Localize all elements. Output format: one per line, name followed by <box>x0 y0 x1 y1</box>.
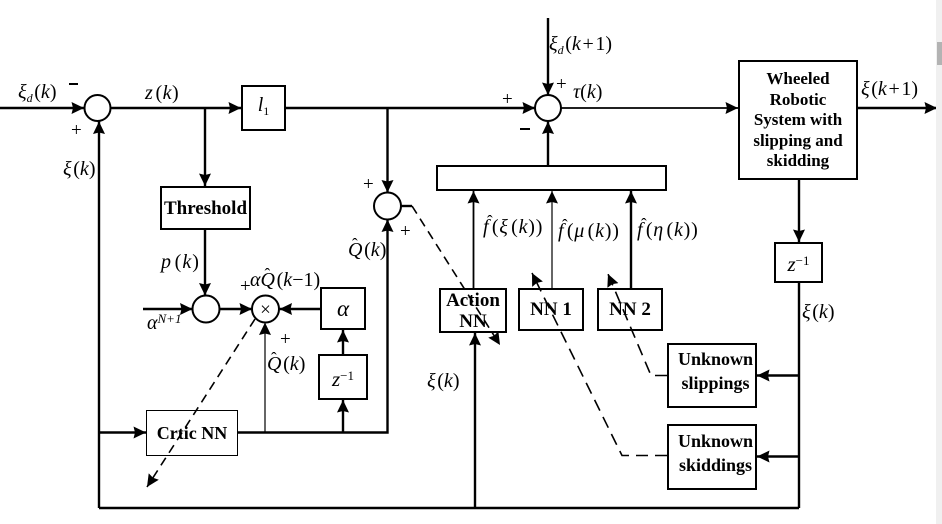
svg-text:×: × <box>260 300 271 321</box>
